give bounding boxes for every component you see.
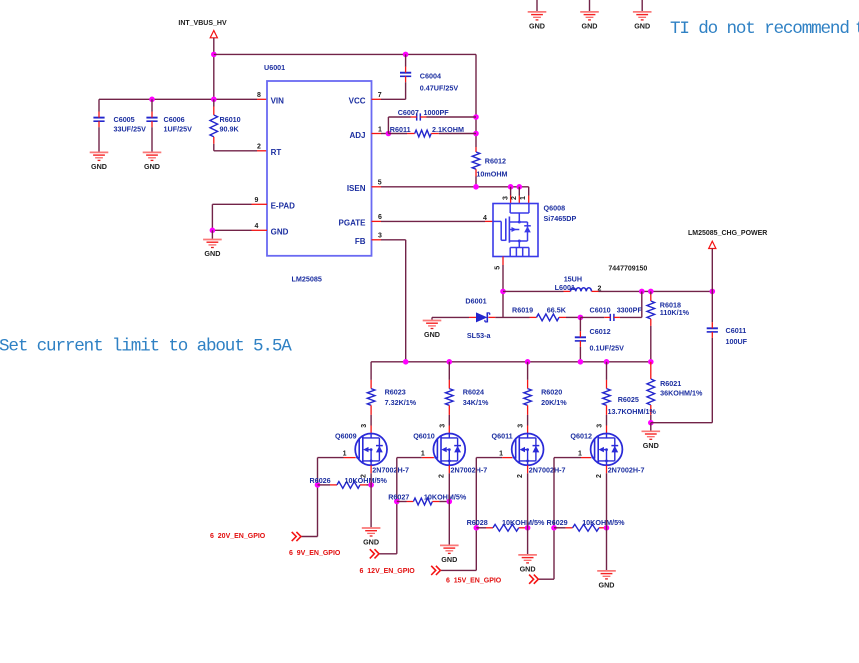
svg-text:3: 3 [518, 424, 525, 428]
resistor R6018 [650, 291, 652, 294]
svg-text:6 12V_EN_GPIO: 6 12V_EN_GPIO [360, 568, 416, 575]
svg-text:2: 2 [439, 474, 446, 478]
svg-text:2: 2 [257, 144, 261, 151]
svg-text:ADJ: ADJ [349, 131, 365, 140]
svg-text:R6023: R6023 [385, 387, 406, 396]
svg-text:6 15V_EN_GPIO: 6 15V_EN_GPIO [446, 577, 502, 584]
junction [648, 359, 654, 365]
resistor R6021 [650, 362, 652, 379]
wire [536, 0, 538, 11]
svg-text:LM25085: LM25085 [292, 275, 322, 284]
svg-text:Q6008: Q6008 [544, 203, 566, 212]
capacitor C6004 [405, 54, 407, 66]
svg-text:2N7002H-7: 2N7002H-7 [372, 466, 409, 475]
svg-text:t: t [855, 19, 859, 39]
ground [440, 544, 459, 546]
wire [589, 0, 591, 11]
wire [379, 553, 397, 555]
svg-text:R6010: R6010 [220, 115, 241, 124]
junction [525, 359, 531, 365]
transistor Q6009 [355, 434, 387, 466]
resistor R6020 [527, 362, 529, 380]
wire [441, 569, 477, 571]
svg-text:C6006: C6006 [164, 115, 185, 124]
junction [447, 359, 453, 365]
svg-text:D6001: D6001 [465, 296, 486, 305]
svg-text:R6021: R6021 [660, 379, 681, 388]
svg-text:2: 2 [511, 196, 518, 200]
wire [212, 229, 251, 231]
ground [362, 527, 381, 529]
svg-text:0.47UF/25V: 0.47UF/25V [420, 83, 459, 92]
transistor Q6010 [433, 434, 465, 466]
resistor R6027 [397, 501, 407, 503]
svg-text:Q6010: Q6010 [413, 431, 435, 440]
svg-text:5: 5 [378, 180, 382, 187]
wire [372, 98, 382, 100]
ground [518, 554, 537, 556]
ground [423, 320, 442, 322]
svg-text:1: 1 [421, 450, 425, 457]
svg-text:6 9V_EN_GPIO: 6 9V_EN_GPIO [289, 550, 341, 557]
wire [431, 317, 433, 319]
svg-text:Set current limit to about 5.5: Set current limit to about 5.5A [0, 337, 292, 357]
svg-text:GND: GND [582, 21, 598, 30]
ground [597, 570, 616, 572]
junction [578, 359, 584, 365]
svg-text:3300PF: 3300PF [617, 306, 643, 315]
svg-text:8: 8 [257, 92, 261, 99]
transistor Q6008 [493, 204, 538, 257]
ground [203, 239, 222, 241]
wire [99, 98, 257, 100]
svg-text:Q6009: Q6009 [335, 431, 357, 440]
junction [386, 131, 392, 137]
capacitor C6012 [579, 317, 581, 331]
op-amp U1 box: U6001 LM25085 [267, 81, 372, 256]
svg-text:1: 1 [578, 450, 582, 457]
svg-text:R6011: R6011 [390, 125, 411, 134]
resistor R6026 [318, 484, 331, 486]
wire [553, 458, 555, 580]
svg-text:R6028: R6028 [467, 518, 488, 527]
svg-text:2N7002H-7: 2N7002H-7 [608, 466, 645, 475]
wire [213, 38, 215, 100]
svg-text:34K/1%: 34K/1% [463, 398, 489, 407]
svg-text:C6004: C6004 [420, 72, 441, 81]
offpage connector 20V_EN_GPIO [292, 532, 297, 541]
capacitor C6010 [580, 316, 604, 318]
svg-text:4: 4 [255, 223, 259, 230]
power symbol LM25085_CHG_POWER [709, 241, 716, 248]
svg-text:9: 9 [255, 197, 259, 204]
svg-text:GND: GND [643, 441, 659, 450]
wire [476, 457, 502, 459]
wire [528, 187, 530, 196]
svg-text:10KOHM/5%: 10KOHM/5% [345, 476, 388, 485]
wire [502, 291, 504, 317]
svg-text:L6001: L6001 [555, 283, 575, 292]
svg-text:10KOHM/5%: 10KOHM/5% [502, 518, 545, 527]
svg-text:1UF/25V: 1UF/25V [164, 125, 193, 134]
junction [447, 499, 453, 505]
svg-text:10mOHM: 10mOHM [476, 170, 507, 179]
wire [372, 186, 382, 188]
svg-text:GND: GND [634, 21, 650, 30]
svg-text:U6001: U6001 [264, 63, 285, 72]
svg-text:GND: GND [271, 228, 289, 237]
svg-text:GND: GND [91, 162, 107, 171]
svg-text:2: 2 [517, 474, 524, 478]
junction [368, 482, 374, 488]
wire [397, 457, 422, 459]
wire [606, 465, 608, 473]
svg-text:GND: GND [144, 162, 160, 171]
power symbol INT_VBUS_HV [210, 31, 217, 38]
svg-text:GND: GND [363, 538, 379, 547]
wire [396, 458, 398, 554]
wire [554, 457, 581, 459]
svg-text:1: 1 [378, 126, 382, 133]
svg-text:GND: GND [424, 330, 440, 339]
svg-text:R6026: R6026 [310, 476, 331, 485]
svg-text:2: 2 [596, 474, 603, 478]
wire [641, 0, 643, 11]
svg-text:100UF: 100UF [726, 337, 748, 346]
capacitor C6007 [416, 113, 418, 120]
wire [372, 133, 382, 135]
svg-text:GND: GND [529, 21, 545, 30]
resistor R6019 [495, 316, 529, 318]
ground [143, 151, 162, 153]
svg-text:7447709150: 7447709150 [608, 266, 647, 273]
junction [500, 289, 506, 295]
svg-text:4: 4 [483, 215, 487, 222]
wire [599, 290, 713, 292]
svg-text:LM25085_CHG_POWER: LM25085_CHG_POWER [688, 230, 767, 237]
svg-text:R6024: R6024 [463, 387, 484, 396]
wire [651, 422, 713, 424]
resistor R6028 [476, 527, 486, 529]
svg-text:66.5K: 66.5K [547, 306, 567, 315]
junction [508, 184, 514, 190]
resistor R6024 [448, 362, 450, 380]
ground [642, 430, 661, 432]
svg-text:VIN: VIN [271, 97, 285, 106]
svg-text:3: 3 [378, 233, 382, 240]
svg-text:TI do not recommend: TI do not recommend [670, 19, 849, 39]
wire [318, 457, 344, 459]
svg-text:E-PAD: E-PAD [271, 202, 296, 211]
wire [214, 150, 257, 152]
ground [580, 11, 599, 13]
svg-text:R6025: R6025 [618, 395, 639, 404]
capacitor C6011 [711, 291, 713, 322]
svg-text:C6010: C6010 [590, 306, 611, 315]
svg-text:Si7465DP: Si7465DP [544, 214, 577, 223]
junction [517, 184, 523, 190]
resistor R6010 [213, 99, 215, 106]
svg-text:90.9K: 90.9K [220, 124, 240, 133]
transistor Q6012 [591, 434, 623, 466]
ground [90, 151, 109, 153]
resistor R6025 [606, 362, 608, 380]
svg-text:2N7002H-7: 2N7002H-7 [451, 466, 488, 475]
svg-text:GND: GND [204, 249, 220, 258]
svg-text:Q6012: Q6012 [570, 431, 592, 440]
svg-text:GND: GND [599, 580, 615, 589]
svg-text:R6029: R6029 [547, 518, 568, 527]
junction [403, 52, 409, 58]
svg-text:1: 1 [499, 450, 503, 457]
svg-text:PGATE: PGATE [339, 219, 367, 228]
svg-text:1: 1 [520, 196, 527, 200]
wire [448, 465, 450, 473]
svg-text:33UF/25V: 33UF/25V [114, 125, 147, 134]
resistor R6023 [370, 362, 372, 380]
svg-text:GND: GND [520, 564, 536, 573]
svg-text:2.1KOHM: 2.1KOHM [432, 125, 464, 134]
junction [604, 359, 610, 365]
svg-text:10KOHM/5%: 10KOHM/5% [582, 518, 625, 527]
svg-text:3: 3 [361, 424, 368, 428]
svg-text:13.7KOHM/1%: 13.7KOHM/1% [608, 407, 657, 416]
wire [510, 187, 512, 196]
junction [211, 97, 217, 103]
resistor R6012 [475, 147, 477, 152]
wire [387, 117, 389, 134]
wire [372, 220, 382, 222]
inductor L6001 [564, 290, 571, 292]
junction [394, 499, 400, 505]
wire [518, 187, 520, 196]
wire [711, 249, 713, 292]
capacitor C6005 [98, 99, 100, 111]
junction [525, 525, 531, 531]
wire [503, 290, 564, 292]
capacitor C6006 [151, 99, 153, 111]
junction [474, 525, 480, 531]
wire [527, 465, 529, 473]
svg-text:C6007: C6007 [398, 108, 419, 117]
wire [475, 458, 477, 571]
svg-text:INT_VBUS_HV: INT_VBUS_HV [178, 20, 227, 27]
svg-text:R6027: R6027 [388, 492, 409, 501]
junction [604, 525, 610, 531]
svg-text:3: 3 [597, 424, 604, 428]
svg-text:RT: RT [271, 148, 282, 157]
svg-text:R6019: R6019 [512, 306, 533, 315]
diode D6001 [432, 316, 469, 318]
svg-text:SL53-a: SL53-a [467, 331, 492, 340]
wire [211, 230, 213, 239]
svg-text:R6020: R6020 [541, 387, 562, 396]
svg-text:6: 6 [378, 214, 382, 221]
junction [210, 228, 216, 234]
svg-text:3: 3 [502, 196, 509, 200]
wire [371, 361, 651, 363]
wire [301, 536, 318, 538]
svg-text:Q6011: Q6011 [492, 431, 513, 440]
transistor Q6011 [512, 434, 544, 466]
ground [528, 11, 547, 13]
wire [538, 578, 554, 580]
svg-text:7.32K/1%: 7.32K/1% [385, 398, 417, 407]
svg-text:1: 1 [343, 450, 347, 457]
junction [315, 482, 321, 488]
svg-text:C6012: C6012 [590, 327, 611, 336]
svg-text:3: 3 [439, 424, 446, 428]
svg-text:C6011: C6011 [726, 326, 747, 335]
junction [149, 97, 155, 103]
wire [214, 53, 476, 55]
junction [473, 131, 479, 137]
offpage connector 9V_EN_GPIO [370, 549, 375, 558]
svg-text:GND: GND [441, 555, 457, 564]
junction [639, 289, 645, 295]
svg-text:ISEN: ISEN [347, 184, 366, 193]
svg-text:6 20V_EN_GPIO: 6 20V_EN_GPIO [210, 533, 266, 540]
svg-text:110K/1%: 110K/1% [660, 308, 690, 317]
wire [502, 257, 504, 266]
junction [211, 52, 217, 58]
junction [403, 359, 409, 365]
svg-text:20K/1%: 20K/1% [541, 398, 567, 407]
svg-text:2N7002H-7: 2N7002H-7 [529, 466, 566, 475]
junction [648, 420, 654, 426]
wire [370, 465, 372, 473]
svg-text:0.1UF/25V: 0.1UF/25V [590, 343, 625, 352]
junction [551, 525, 557, 531]
svg-text:C6005: C6005 [114, 115, 135, 124]
junction [578, 315, 584, 321]
resistor R6029 [554, 527, 566, 529]
svg-text:10KOHM/5%: 10KOHM/5% [424, 492, 467, 501]
wire [317, 458, 319, 537]
wire [372, 239, 382, 241]
svg-text:1000PF: 1000PF [424, 108, 450, 117]
svg-text:36KOHM/1%: 36KOHM/1% [660, 388, 703, 397]
offpage connector 15V_EN_GPIO [529, 575, 534, 584]
junction [710, 289, 716, 295]
wire [475, 54, 477, 147]
resistor R6011 [388, 133, 407, 135]
svg-text:7: 7 [378, 92, 382, 99]
ground [633, 11, 652, 13]
svg-text:VCC: VCC [349, 97, 366, 106]
junction [473, 114, 479, 120]
svg-text:5: 5 [495, 266, 502, 270]
wire [212, 203, 251, 205]
junction [473, 184, 479, 190]
wire [650, 423, 652, 431]
offpage connector 12V_EN_GPIO [431, 566, 436, 575]
junction [648, 289, 654, 295]
svg-text:R6012: R6012 [485, 156, 506, 165]
svg-text:FB: FB [355, 237, 366, 246]
